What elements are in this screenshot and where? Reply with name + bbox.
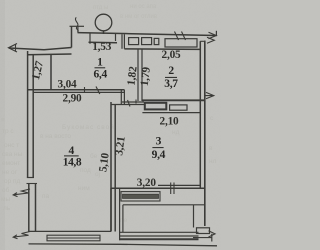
vent shaft box <box>165 39 197 47</box>
arrow right at top outer corner <box>209 32 217 38</box>
paper background <box>0 0 221 250</box>
svg-text:2,05: 2,05 <box>162 49 182 61</box>
svg-text:9,4: 9,4 <box>152 149 166 161</box>
room1/room4 wall lower line <box>33 91 124 93</box>
svg-text:мы: мы <box>1 196 10 203</box>
svg-text:птд ы: птд ы <box>93 5 108 11</box>
duct shelf lower line <box>124 48 200 51</box>
cap of lower left wall piece <box>27 183 38 185</box>
right wall top corner cap <box>200 40 205 42</box>
svg-text:емонт: емонт <box>2 160 20 167</box>
svg-text:1: 1 <box>97 57 103 69</box>
corridor left vertical to balcony <box>110 188 112 231</box>
room 4 underline <box>64 155 79 157</box>
svg-text:об: об <box>2 186 10 194</box>
svg-text:не ог: не ог <box>2 169 18 176</box>
svg-text:в: в <box>209 145 213 152</box>
svg-text:2,10: 2,10 <box>160 116 180 128</box>
tick on kitchen wall slanted <box>128 100 131 107</box>
left wall closure <box>27 177 34 179</box>
room 1 underline <box>95 67 106 69</box>
svg-text:пе: пе <box>120 217 128 224</box>
arrow right at balcony end <box>209 231 216 237</box>
window jamb left <box>89 33 91 44</box>
entry door arrow top-left <box>9 44 18 53</box>
divider wall between room1 and duct zone <box>122 34 124 48</box>
faint bleed-through text bottom left <box>1 115 214 224</box>
balcony right inner edge <box>193 205 195 228</box>
stub below T-bar <box>77 26 79 32</box>
break squiggle left wall upper <box>13 189 30 197</box>
svg-text:1,79: 1,79 <box>139 66 153 87</box>
balcony left wall outer <box>119 188 121 240</box>
left outer wall upper piece (inner line) <box>32 55 34 178</box>
dimension arrow right at room2 bottom <box>205 92 214 98</box>
svg-text:6,4: 6,4 <box>93 69 107 81</box>
dimension texts <box>30 41 181 189</box>
end tick at top outer corner <box>215 31 217 36</box>
svg-text:тр с: тр с <box>2 128 14 135</box>
room4 window outer rect <box>47 235 100 241</box>
end tick bottom-right <box>211 234 213 242</box>
lower dimension line bottom-right <box>193 237 212 239</box>
arrow right below corner <box>207 37 214 43</box>
svg-text:па: па <box>42 193 50 200</box>
svg-text:3,7: 3,7 <box>164 78 178 90</box>
balcony bottom band line1 <box>120 231 199 233</box>
room labels <box>63 57 179 169</box>
svg-text:ни ос апа: ни ос апа <box>130 4 157 10</box>
room4 bottom wall top line <box>29 230 111 232</box>
svg-text:ор пд: ор пд <box>4 178 21 185</box>
kitchen stove box <box>170 105 187 110</box>
balcony end tab box <box>197 228 210 234</box>
room3 bottom dimension line <box>158 184 200 186</box>
outer bottom line full <box>29 244 218 246</box>
room1 left wall <box>50 54 52 89</box>
tick on 3,04 line right <box>96 87 100 95</box>
svg-text:1,82: 1,82 <box>125 65 139 86</box>
balcony bottom band line3 dark <box>120 238 199 240</box>
outer wall top-left upper line <box>9 48 72 50</box>
vent shaft diagonal tick 2 <box>182 32 186 41</box>
svg-text:2,90: 2,90 <box>63 92 83 104</box>
wall connector vertical x72 <box>71 26 73 47</box>
room 3 underline <box>152 147 163 149</box>
break S-squiggle <box>75 17 78 32</box>
svg-text:бе: бе <box>90 152 98 160</box>
room3 bottom wall line <box>111 187 205 189</box>
kitchen sink box <box>145 103 167 110</box>
vent shaft diagonal tick 1 <box>175 32 179 41</box>
svg-text:3,20: 3,20 <box>137 177 157 189</box>
cupboard box 3 small <box>154 38 159 44</box>
tick on entry arrow <box>15 44 17 51</box>
room1/kitchen wall lower <box>111 104 144 106</box>
room2/3 right wall outer <box>204 41 206 226</box>
room1/kitchen wall upper <box>122 101 144 103</box>
balcony left wall inner <box>122 205 124 233</box>
svg-text:онс т: онс т <box>4 142 19 149</box>
balcony top edge <box>123 204 205 206</box>
svg-text:3: 3 <box>156 136 162 148</box>
svg-text:2: 2 <box>168 65 174 77</box>
circle (vent) <box>95 14 112 31</box>
room2 bottom wall <box>142 99 205 101</box>
svg-text:под: под <box>80 167 91 174</box>
window sill line (1,53 window) <box>89 41 118 44</box>
svg-text:нл: нл <box>209 158 217 165</box>
left wall lower piece inner <box>35 184 37 232</box>
cupboard box 2 <box>142 38 152 45</box>
tick on kitchen wall vertical <box>135 100 137 104</box>
balcony door dark band <box>123 194 159 198</box>
tick on 3,04 line left <box>84 87 86 93</box>
circle stem <box>103 31 105 34</box>
svg-text:нд: нд <box>172 129 180 136</box>
svg-text:в нм ог отлив: в нм ог отлив <box>120 14 157 20</box>
paper grain <box>0 0 1 1</box>
room4 right wall <box>111 102 115 232</box>
faint bleed-through text top right <box>93 4 157 20</box>
room1/room2 divider wall <box>138 49 142 101</box>
svg-text:1,53: 1,53 <box>92 41 112 53</box>
svg-text:сва ны: сва ны <box>2 151 23 158</box>
svg-text:ним: ним <box>78 185 90 192</box>
svg-text:в на восто: в на восто <box>40 133 71 140</box>
room1/room4 wall upper line <box>28 89 125 91</box>
paper shading left edge <box>0 0 5 250</box>
faint bleed-through text right margin <box>172 129 217 165</box>
window jamb right <box>115 33 117 41</box>
room2 right wall inner <box>199 41 201 188</box>
kitchen counter line <box>142 112 200 114</box>
svg-text:Букомас свой: Букомас свой <box>62 123 115 131</box>
wall step vertical x121-124 <box>121 90 124 105</box>
balcony door block outline <box>121 192 160 201</box>
room4 window inner line <box>47 237 100 239</box>
svg-text:ль: ль <box>3 205 11 212</box>
break squiggle left wall lower <box>13 232 30 239</box>
break T-bar top <box>70 25 85 27</box>
left wall lower piece outer <box>28 184 30 233</box>
svg-text:≡: ≡ <box>1 117 5 124</box>
balcony bottom band line2 <box>120 235 199 237</box>
svg-text:3,04: 3,04 <box>58 78 78 90</box>
cupboard box 1 <box>129 38 139 45</box>
room 2 underline <box>165 76 177 78</box>
top outer wall main line <box>78 33 216 36</box>
ticks on 3,20 dimension <box>171 183 174 195</box>
svg-text:14,8: 14,8 <box>63 156 82 168</box>
left outer wall upper piece (outer line) <box>27 51 29 178</box>
outer wall top-left lower line <box>27 53 72 56</box>
